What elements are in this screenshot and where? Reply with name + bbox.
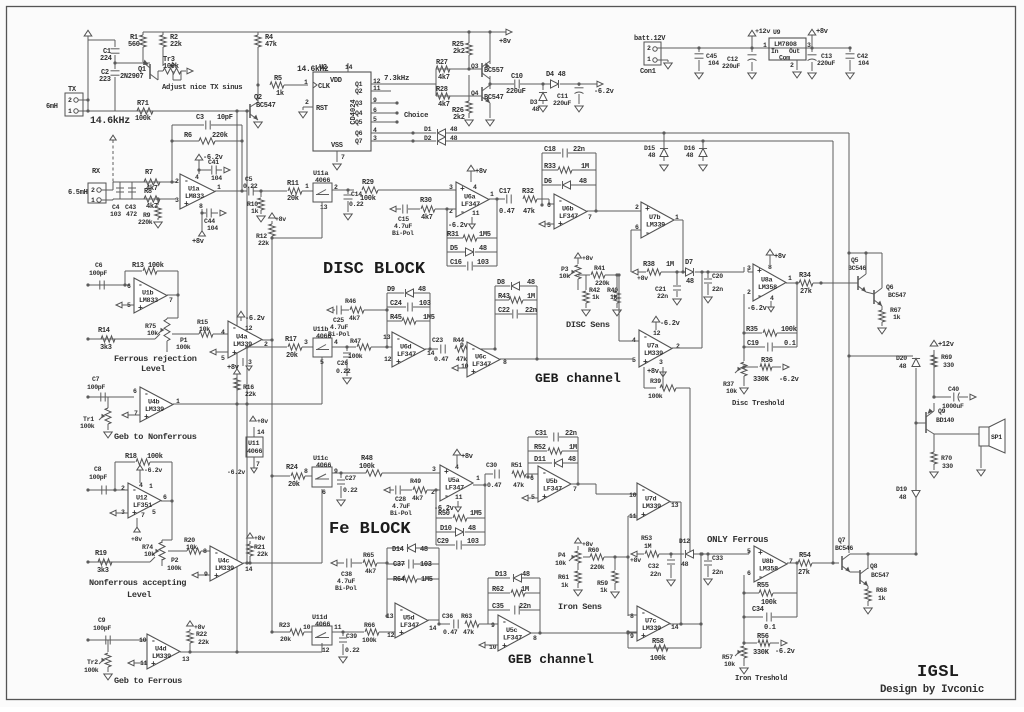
svg-text:8: 8 — [630, 613, 634, 620]
svg-text:104: 104 — [207, 225, 218, 232]
svg-text:22n: 22n — [573, 146, 585, 154]
svg-text:R11: R11 — [287, 180, 299, 188]
svg-text:47k: 47k — [463, 629, 474, 636]
svg-text:LM358: LM358 — [758, 284, 777, 292]
svg-text:-: - — [502, 618, 507, 627]
svg-text:Bi-Pol: Bi-Pol — [392, 230, 414, 237]
svg-text:BC547: BC547 — [256, 102, 276, 110]
svg-text:R60: R60 — [588, 547, 599, 554]
svg-text:C37: C37 — [393, 561, 405, 569]
svg-text:8: 8 — [199, 203, 203, 210]
svg-text:103: 103 — [467, 538, 479, 546]
svg-text:48: 48 — [899, 363, 907, 370]
svg-text:1k: 1k — [600, 587, 608, 594]
svg-text:48: 48 — [420, 546, 428, 554]
svg-text:7: 7 — [141, 512, 145, 519]
svg-text:103: 103 — [110, 211, 121, 218]
svg-text:220k: 220k — [590, 564, 605, 571]
svg-text:R6: R6 — [184, 132, 192, 140]
svg-text:48: 48 — [899, 494, 907, 501]
svg-text:+: + — [444, 468, 449, 477]
svg-text:C18: C18 — [544, 146, 556, 154]
svg-text:6: 6 — [163, 494, 167, 501]
svg-text:27k: 27k — [800, 288, 812, 296]
svg-text:-: - — [757, 292, 762, 301]
svg-text:1000uF: 1000uF — [942, 403, 964, 410]
svg-text:D10: D10 — [440, 525, 452, 533]
svg-text:R69: R69 — [941, 354, 952, 361]
svg-text:7: 7 — [169, 297, 173, 304]
svg-text:+: + — [757, 267, 762, 276]
svg-text:4: 4 — [195, 174, 199, 181]
svg-text:1: 1 — [763, 42, 767, 49]
svg-text:R74: R74 — [142, 544, 153, 551]
svg-text:12: 12 — [384, 356, 392, 363]
svg-text:R46: R46 — [345, 298, 356, 305]
svg-text:R43: R43 — [498, 293, 510, 301]
svg-text:1M5: 1M5 — [470, 510, 482, 518]
svg-text:R24: R24 — [286, 464, 298, 472]
svg-text:C27: C27 — [345, 475, 356, 482]
svg-text:Geb to Nonferrous: Geb to Nonferrous — [114, 432, 197, 442]
svg-text:22n: 22n — [525, 307, 537, 315]
svg-text:DISC Sens: DISC Sens — [566, 320, 610, 330]
svg-text:22n: 22n — [712, 569, 723, 576]
svg-text:C11: C11 — [557, 93, 568, 100]
svg-text:22k: 22k — [258, 240, 269, 247]
svg-text:100pF: 100pF — [87, 384, 105, 391]
svg-text:R35: R35 — [746, 326, 758, 334]
svg-text:48: 48 — [479, 245, 487, 253]
svg-text:+8v: +8v — [647, 368, 660, 376]
svg-text:220k: 220k — [212, 132, 228, 140]
svg-text:+8v: +8v — [194, 624, 205, 631]
svg-text:330: 330 — [942, 463, 953, 470]
svg-text:7: 7 — [341, 154, 345, 161]
svg-text:U11: U11 — [248, 440, 260, 448]
svg-text:2k2: 2k2 — [453, 114, 465, 122]
svg-text:100k: 100k — [781, 326, 797, 334]
svg-text:0.47: 0.47 — [499, 208, 515, 216]
svg-text:100k: 100k — [80, 423, 95, 430]
svg-text:8: 8 — [203, 548, 207, 555]
svg-text:1M: 1M — [527, 293, 535, 301]
svg-text:48: 48 — [450, 126, 458, 133]
svg-text:4066: 4066 — [315, 177, 330, 185]
svg-text:D6: D6 — [544, 178, 552, 186]
svg-text:4: 4 — [770, 295, 774, 302]
svg-text:330K: 330K — [753, 376, 770, 384]
svg-text:C17: C17 — [499, 188, 511, 196]
svg-text:4k7: 4k7 — [365, 568, 376, 575]
svg-text:-: - — [645, 229, 650, 238]
svg-text:C16: C16 — [450, 259, 462, 267]
svg-text:100k: 100k — [148, 262, 164, 270]
svg-text:+8v: +8v — [254, 535, 265, 542]
svg-text:20k: 20k — [280, 636, 291, 643]
svg-text:R19: R19 — [95, 550, 107, 558]
svg-text:C15: C15 — [398, 216, 409, 223]
svg-text:3: 3 — [807, 42, 811, 49]
svg-text:11: 11 — [472, 210, 480, 217]
svg-text:Q2: Q2 — [254, 94, 262, 102]
svg-text:6: 6 — [322, 489, 326, 496]
svg-text:R12: R12 — [256, 233, 267, 240]
svg-text:R67: R67 — [890, 307, 901, 314]
svg-text:Q8: Q8 — [870, 563, 878, 570]
svg-text:D11: D11 — [534, 456, 546, 464]
svg-text:LM358: LM358 — [759, 566, 778, 574]
svg-text:20k: 20k — [288, 481, 300, 489]
svg-text:C34: C34 — [752, 606, 764, 614]
svg-text:3: 3 — [304, 339, 308, 346]
svg-text:D13: D13 — [495, 571, 507, 579]
svg-text:+: + — [471, 368, 476, 377]
svg-text:C7: C7 — [92, 376, 100, 383]
svg-text:7: 7 — [573, 486, 577, 493]
svg-text:R64: R64 — [393, 576, 405, 584]
svg-text:LF347: LF347 — [472, 361, 491, 369]
svg-text:103: 103 — [419, 300, 431, 308]
svg-text:2: 2 — [635, 204, 639, 211]
svg-text:10: 10 — [139, 637, 147, 644]
svg-text:1k: 1k — [893, 314, 901, 321]
svg-text:+: + — [542, 493, 547, 502]
svg-text:R75: R75 — [145, 323, 156, 330]
svg-text:10k: 10k — [726, 388, 737, 395]
svg-text:R39: R39 — [650, 378, 661, 385]
svg-text:4: 4 — [334, 339, 338, 346]
svg-text:20k: 20k — [287, 195, 299, 203]
svg-text:4066: 4066 — [247, 448, 262, 456]
svg-text:-6.2v: -6.2v — [660, 320, 681, 328]
svg-text:+: + — [138, 304, 143, 313]
svg-text:C42: C42 — [857, 53, 868, 60]
svg-text:1: 1 — [68, 108, 72, 115]
svg-text:C10: C10 — [511, 73, 523, 81]
svg-text:-: - — [641, 486, 646, 495]
svg-text:+8v: +8v — [461, 453, 474, 461]
svg-text:-6.2v: -6.2v — [227, 469, 245, 476]
svg-text:+: + — [144, 413, 149, 422]
svg-text:-6.2v: -6.2v — [245, 315, 266, 323]
svg-text:0.22: 0.22 — [345, 647, 360, 654]
svg-text:20k: 20k — [286, 352, 298, 360]
svg-text:Tr2: Tr2 — [87, 659, 98, 666]
svg-text:48: 48 — [468, 525, 476, 533]
svg-text:R57: R57 — [722, 654, 733, 661]
svg-text:Level: Level — [127, 590, 151, 600]
svg-text:R56: R56 — [757, 633, 769, 641]
svg-text:3k3: 3k3 — [100, 344, 112, 352]
svg-text:-: - — [758, 573, 763, 582]
svg-text:LF347: LF347 — [543, 486, 562, 494]
svg-text:+: + — [214, 572, 219, 581]
svg-text:1: 1 — [91, 197, 95, 204]
svg-text:Q5: Q5 — [851, 257, 859, 264]
svg-text:D16: D16 — [684, 145, 695, 152]
svg-text:100k: 100k — [348, 353, 363, 360]
svg-text:D9: D9 — [387, 286, 395, 294]
svg-text:LF347: LF347 — [400, 622, 419, 630]
svg-text:LF347: LF347 — [503, 635, 522, 643]
svg-text:C41: C41 — [208, 159, 219, 166]
svg-text:C6: C6 — [95, 262, 103, 269]
svg-text:R5: R5 — [274, 75, 282, 83]
svg-text:C26: C26 — [337, 360, 348, 367]
svg-text:10k: 10k — [147, 330, 158, 337]
svg-text:DISC BLOCK: DISC BLOCK — [323, 260, 426, 279]
svg-text:14.6kHz: 14.6kHz — [90, 115, 130, 127]
svg-text:13: 13 — [182, 656, 190, 663]
svg-text:6.5mH: 6.5mH — [68, 189, 88, 197]
svg-text:103: 103 — [420, 561, 432, 569]
svg-text:7.3kHz: 7.3kHz — [384, 75, 409, 83]
svg-text:R54: R54 — [799, 552, 811, 560]
svg-text:+: + — [641, 632, 646, 641]
svg-text:Q6: Q6 — [886, 284, 894, 291]
svg-text:LM833: LM833 — [185, 193, 204, 201]
svg-text:+: + — [232, 349, 237, 358]
svg-text:0.1: 0.1 — [784, 340, 796, 348]
svg-text:22n: 22n — [657, 293, 668, 300]
svg-text:GEB channel: GEB channel — [535, 371, 621, 386]
svg-text:0.22: 0.22 — [336, 368, 351, 375]
svg-text:R7: R7 — [145, 169, 153, 177]
svg-text:4.7uF: 4.7uF — [394, 223, 412, 230]
svg-text:6: 6 — [127, 283, 131, 290]
svg-text:0.47: 0.47 — [434, 356, 449, 363]
svg-text:4: 4 — [632, 337, 636, 344]
svg-text:+: + — [184, 200, 189, 209]
svg-text:Adjust nice TX sinus: Adjust nice TX sinus — [162, 84, 242, 92]
svg-text:2N2907: 2N2907 — [120, 73, 144, 81]
svg-text:R50: R50 — [438, 510, 450, 518]
svg-text:LM339: LM339 — [644, 350, 663, 358]
svg-text:BC547: BC547 — [871, 572, 889, 579]
svg-text:6: 6 — [133, 388, 137, 395]
svg-text:4.7uF: 4.7uF — [392, 503, 410, 510]
svg-text:330K: 330K — [753, 649, 770, 657]
svg-text:10k: 10k — [144, 551, 155, 558]
svg-text:R63: R63 — [461, 613, 472, 620]
svg-text:4k7: 4k7 — [438, 101, 450, 109]
svg-text:C38: C38 — [341, 571, 352, 578]
svg-text:100pF: 100pF — [89, 474, 107, 481]
svg-text:CLK: CLK — [318, 83, 331, 91]
svg-text:0.47: 0.47 — [443, 629, 458, 636]
svg-text:LM833: LM833 — [139, 297, 158, 305]
svg-text:R18: R18 — [125, 453, 137, 461]
svg-text:C21: C21 — [655, 286, 666, 293]
svg-text:1k: 1k — [561, 582, 569, 589]
svg-text:48: 48 — [568, 456, 576, 464]
svg-text:+8v: +8v — [630, 557, 641, 564]
svg-text:100k: 100k — [163, 63, 179, 71]
svg-text:C22: C22 — [498, 307, 510, 315]
svg-text:0.22: 0.22 — [243, 183, 258, 190]
svg-text:C36: C36 — [442, 613, 453, 620]
svg-text:-6.2v: -6.2v — [594, 88, 615, 96]
svg-text:10k: 10k — [186, 544, 197, 551]
svg-text:Con1: Con1 — [640, 68, 656, 76]
svg-text:220uF: 220uF — [817, 60, 835, 67]
svg-text:ONLY Ferrous: ONLY Ferrous — [707, 535, 768, 545]
svg-text:D3: D3 — [530, 99, 538, 106]
svg-text:2: 2 — [175, 178, 179, 185]
svg-text:TX: TX — [68, 86, 77, 94]
svg-text:-6.2v: -6.2v — [144, 467, 162, 474]
svg-text:LM339: LM339 — [152, 653, 171, 661]
svg-text:R10: R10 — [247, 201, 258, 208]
svg-text:8: 8 — [768, 264, 772, 271]
svg-text:1M: 1M — [581, 163, 589, 171]
svg-text:4: 4 — [473, 184, 477, 191]
svg-text:R49: R49 — [410, 478, 421, 485]
svg-text:48: 48 — [532, 106, 540, 113]
svg-text:C23: C23 — [432, 337, 443, 344]
svg-text:11: 11 — [334, 624, 342, 631]
svg-text:+8v: +8v — [499, 38, 512, 46]
svg-text:0.22: 0.22 — [343, 487, 358, 494]
svg-text:1M5: 1M5 — [421, 576, 433, 584]
svg-text:LM339: LM339 — [215, 565, 234, 573]
svg-text:14: 14 — [671, 624, 679, 631]
svg-text:+8v: +8v — [637, 275, 648, 282]
svg-text:R21: R21 — [254, 544, 265, 551]
svg-text:100pF: 100pF — [93, 625, 111, 632]
svg-text:R62: R62 — [492, 586, 504, 594]
svg-text:VSS: VSS — [331, 142, 343, 150]
svg-text:Nonferrous accepting: Nonferrous accepting — [89, 578, 186, 588]
svg-text:7: 7 — [134, 410, 138, 417]
svg-text:+8v: +8v — [275, 216, 286, 223]
svg-text:8: 8 — [304, 468, 308, 475]
svg-text:48: 48 — [418, 286, 426, 294]
svg-text:BD140: BD140 — [936, 417, 954, 424]
svg-text:C4: C4 — [112, 204, 120, 211]
svg-text:4.7uF: 4.7uF — [330, 324, 348, 331]
svg-text:13: 13 — [320, 204, 328, 211]
svg-text:4066: 4066 — [315, 621, 330, 629]
svg-text:-6.2v: -6.2v — [775, 648, 796, 656]
svg-text:3k3: 3k3 — [97, 567, 109, 575]
svg-text:+: + — [643, 358, 648, 367]
svg-text:R42: R42 — [589, 287, 600, 294]
svg-text:R70: R70 — [941, 455, 952, 462]
svg-text:R13: R13 — [132, 262, 144, 270]
svg-text:14: 14 — [257, 429, 265, 436]
svg-text:+8v: +8v — [816, 28, 829, 36]
svg-text:R31: R31 — [447, 231, 459, 239]
svg-text:3: 3 — [449, 184, 453, 191]
svg-text:C44: C44 — [204, 218, 215, 225]
svg-text:-: - — [444, 492, 449, 501]
svg-text:1k: 1k — [592, 294, 600, 301]
svg-text:+12v: +12v — [755, 28, 770, 36]
svg-text:-: - — [643, 333, 648, 342]
svg-text:D15: D15 — [644, 145, 655, 152]
svg-text:2: 2 — [305, 99, 309, 106]
svg-text:1k: 1k — [251, 208, 259, 215]
svg-text:104: 104 — [858, 60, 869, 67]
svg-text:R36: R36 — [761, 357, 773, 365]
svg-text:R68: R68 — [876, 587, 887, 594]
svg-text:5: 5 — [152, 509, 156, 516]
svg-text:+8v: +8v — [257, 418, 268, 425]
svg-text:22n: 22n — [519, 603, 531, 611]
svg-text:1: 1 — [490, 191, 494, 198]
svg-text:D5: D5 — [450, 245, 458, 253]
svg-text:LM339: LM339 — [233, 341, 252, 349]
svg-text:22k: 22k — [198, 639, 209, 646]
svg-text:100k: 100k — [176, 344, 191, 351]
svg-text:10: 10 — [629, 492, 637, 499]
svg-text:C20: C20 — [712, 273, 723, 280]
svg-text:Q6: Q6 — [355, 130, 363, 137]
svg-text:LM339: LM339 — [646, 222, 665, 230]
svg-text:220uF: 220uF — [553, 100, 571, 107]
svg-text:22n: 22n — [712, 286, 723, 293]
svg-text:4: 4 — [221, 329, 225, 336]
svg-text:22k: 22k — [170, 41, 182, 49]
svg-text:+: + — [502, 642, 507, 651]
svg-text:22k: 22k — [257, 551, 268, 558]
svg-text:10k: 10k — [724, 661, 735, 668]
svg-text:R48: R48 — [361, 455, 373, 463]
svg-text:220uF: 220uF — [506, 88, 526, 96]
svg-text:100k: 100k — [135, 115, 151, 123]
svg-text:Disc Treshold: Disc Treshold — [732, 400, 784, 408]
svg-text:+: + — [758, 549, 763, 558]
svg-text:R58: R58 — [652, 638, 664, 646]
svg-text:Geb to Ferrous: Geb to Ferrous — [114, 676, 182, 686]
svg-text:Q9: Q9 — [938, 408, 946, 415]
svg-text:D8: D8 — [497, 279, 505, 287]
svg-text:-: - — [542, 469, 547, 478]
svg-text:2k2: 2k2 — [453, 48, 465, 56]
svg-text:Level: Level — [141, 364, 165, 374]
svg-text:48: 48 — [579, 178, 587, 186]
svg-text:R32: R32 — [522, 188, 534, 196]
svg-text:3: 3 — [659, 359, 663, 366]
svg-text:100k: 100k — [650, 655, 666, 663]
svg-text:48: 48 — [681, 561, 689, 568]
svg-text:D14: D14 — [392, 546, 404, 554]
svg-text:LF347: LF347 — [461, 201, 480, 209]
svg-text:R23: R23 — [279, 622, 290, 629]
svg-text:1M: 1M — [569, 444, 577, 452]
svg-text:R41: R41 — [594, 265, 605, 272]
svg-text:C25: C25 — [333, 317, 344, 324]
svg-text:R71: R71 — [137, 100, 149, 108]
svg-text:7: 7 — [789, 558, 793, 565]
svg-text:+: + — [396, 358, 401, 367]
svg-text:12: 12 — [322, 647, 330, 654]
svg-text:10pF: 10pF — [217, 114, 233, 122]
svg-text:VDD: VDD — [330, 77, 342, 85]
svg-text:-6.2v: -6.2v — [779, 376, 800, 384]
svg-text:C28: C28 — [395, 496, 406, 503]
svg-text:48: 48 — [686, 278, 694, 286]
svg-text:C35: C35 — [492, 603, 504, 611]
svg-text:1: 1 — [304, 79, 308, 86]
svg-text:472: 472 — [126, 211, 137, 218]
svg-text:1k: 1k — [610, 294, 618, 301]
svg-text:48: 48 — [522, 571, 530, 579]
svg-text:12: 12 — [245, 325, 253, 332]
svg-text:6: 6 — [747, 570, 751, 577]
